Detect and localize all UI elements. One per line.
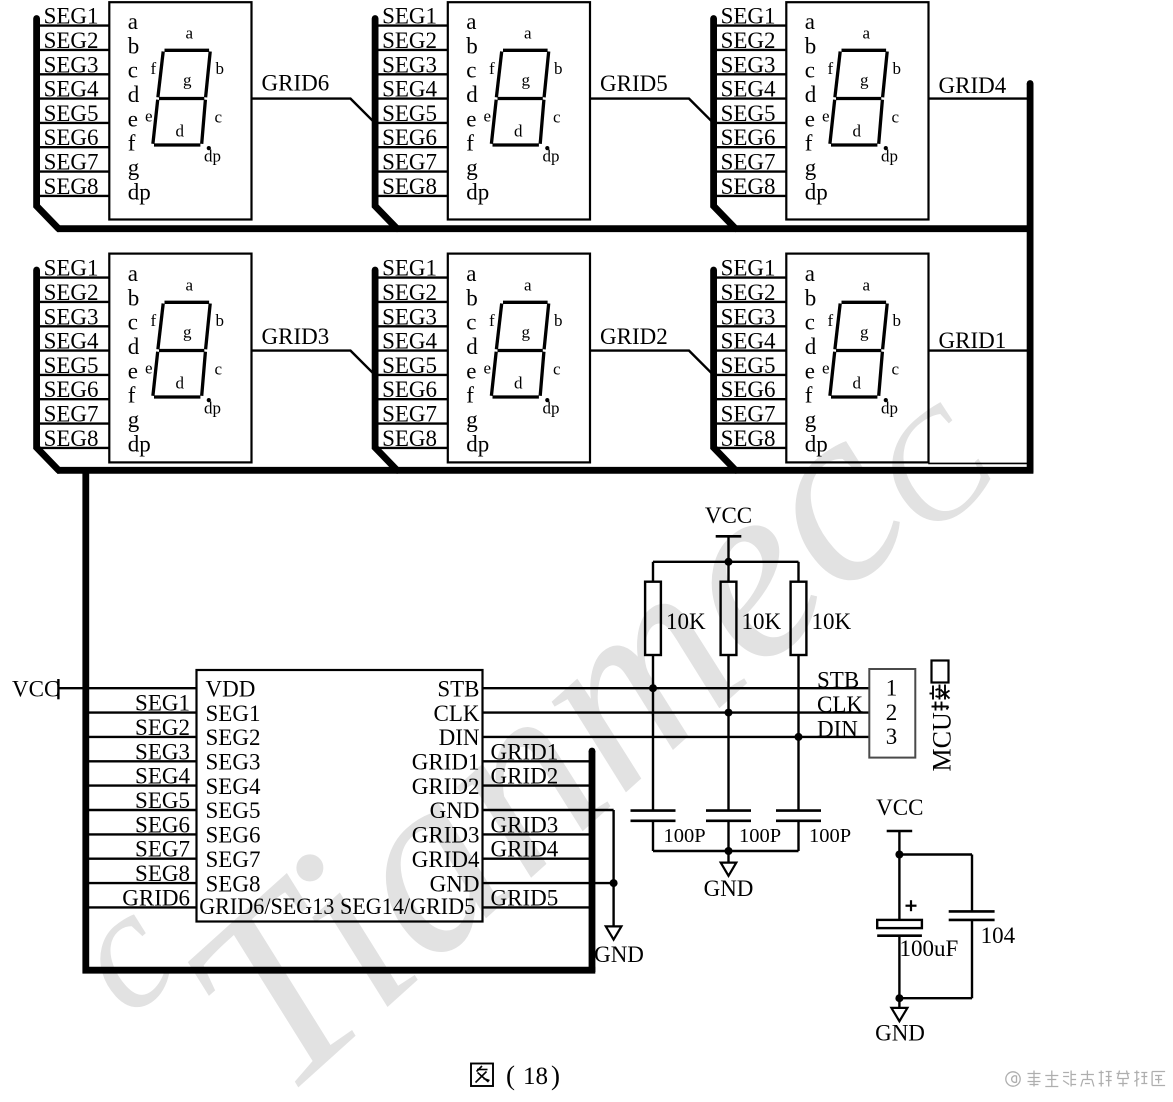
- svg-text:d: d: [853, 374, 862, 393]
- svg-text:f: f: [489, 59, 495, 78]
- svg-text:c: c: [805, 58, 815, 83]
- svg-text:SEG4: SEG4: [44, 329, 99, 354]
- svg-text:dp: dp: [466, 431, 489, 456]
- svg-text:c: c: [553, 360, 561, 379]
- svg-text:SEG5: SEG5: [44, 101, 99, 126]
- svg-text:dp: dp: [204, 399, 221, 418]
- svg-text:f: f: [828, 59, 834, 78]
- svg-text:SEG4: SEG4: [135, 764, 190, 789]
- svg-text:GRID5: GRID5: [600, 71, 668, 96]
- svg-text:b: b: [554, 59, 563, 78]
- svg-text:b: b: [805, 285, 817, 310]
- svg-text:SEG2: SEG2: [382, 280, 437, 305]
- svg-text:a: a: [863, 24, 871, 43]
- svg-text:GRID4: GRID4: [939, 73, 1007, 98]
- svg-text:SEG6: SEG6: [382, 125, 437, 150]
- svg-text:g: g: [128, 155, 140, 180]
- svg-text:g: g: [183, 323, 192, 342]
- svg-text:GRID1: GRID1: [939, 328, 1007, 353]
- svg-text:SEG7: SEG7: [382, 150, 437, 175]
- svg-text:SEG3: SEG3: [382, 52, 437, 77]
- svg-text:b: b: [893, 59, 902, 78]
- svg-text:b: b: [466, 285, 478, 310]
- svg-text:g: g: [466, 155, 478, 180]
- svg-text:g: g: [805, 155, 817, 180]
- svg-text:MCU: MCU: [928, 712, 957, 771]
- svg-text:f: f: [828, 311, 834, 330]
- svg-text:SEG2: SEG2: [44, 280, 99, 305]
- svg-text:g: g: [522, 323, 531, 342]
- svg-text:d: d: [466, 334, 478, 359]
- svg-text:b: b: [554, 311, 563, 330]
- svg-text:dp: dp: [466, 179, 489, 204]
- svg-text:GRID3: GRID3: [262, 324, 330, 349]
- svg-text:e: e: [466, 106, 476, 131]
- svg-text:dp: dp: [805, 179, 828, 204]
- svg-text:3: 3: [886, 724, 898, 749]
- svg-text:1: 1: [886, 676, 898, 701]
- svg-text:SEG3: SEG3: [44, 52, 99, 77]
- svg-text:f: f: [466, 383, 474, 408]
- svg-text:g: g: [860, 71, 869, 90]
- svg-text:SEG2: SEG2: [44, 28, 99, 53]
- svg-text:c: c: [128, 310, 138, 335]
- svg-text:SEG7: SEG7: [44, 150, 99, 175]
- svg-text:e: e: [822, 359, 830, 378]
- svg-text:f: f: [151, 311, 157, 330]
- svg-text:100P: 100P: [739, 825, 781, 847]
- svg-text:d: d: [805, 82, 817, 107]
- svg-text:b: b: [216, 59, 225, 78]
- svg-text:b: b: [128, 33, 140, 58]
- svg-text:SEG3: SEG3: [382, 304, 437, 329]
- svg-text:a: a: [805, 9, 815, 34]
- svg-text:g: g: [522, 71, 531, 90]
- svg-text:SEG4: SEG4: [721, 77, 776, 102]
- svg-text:d: d: [514, 122, 523, 141]
- svg-text:SEG7: SEG7: [135, 837, 190, 862]
- svg-text:DIN: DIN: [817, 716, 858, 741]
- svg-text:SEG4: SEG4: [721, 329, 776, 354]
- svg-text:SEG1: SEG1: [135, 691, 190, 716]
- svg-text:SEG4: SEG4: [382, 77, 437, 102]
- svg-text:SEG6: SEG6: [721, 125, 776, 150]
- svg-text:SEG3: SEG3: [721, 304, 776, 329]
- svg-text:100uF: 100uF: [900, 936, 959, 961]
- svg-text:SEG1: SEG1: [721, 4, 776, 29]
- svg-text:dp: dp: [543, 147, 560, 166]
- svg-text:c: c: [892, 360, 900, 379]
- svg-text:SEG8: SEG8: [382, 174, 437, 199]
- svg-text:dp: dp: [128, 179, 151, 204]
- svg-text:f: f: [489, 311, 495, 330]
- svg-text:a: a: [805, 261, 815, 286]
- svg-text:c: c: [215, 360, 223, 379]
- svg-text:SEG2: SEG2: [721, 280, 776, 305]
- svg-text:SEG5: SEG5: [721, 101, 776, 126]
- svg-text:SEG5: SEG5: [44, 353, 99, 378]
- svg-text:SEG7: SEG7: [721, 150, 776, 175]
- svg-text:f: f: [151, 59, 157, 78]
- svg-text:2: 2: [886, 700, 898, 725]
- svg-text:c: c: [128, 58, 138, 83]
- svg-text:a: a: [524, 276, 532, 295]
- svg-text:SEG7: SEG7: [44, 402, 99, 427]
- svg-text:SEG6: SEG6: [44, 377, 99, 402]
- svg-text:e: e: [805, 358, 815, 383]
- svg-text:b: b: [805, 33, 817, 58]
- svg-text:a: a: [466, 9, 476, 34]
- svg-text:d: d: [853, 122, 862, 141]
- svg-text:f: f: [805, 131, 813, 156]
- svg-text:f: f: [128, 383, 136, 408]
- svg-text:GRID6: GRID6: [262, 71, 330, 96]
- svg-text:e: e: [145, 359, 153, 378]
- svg-text:dp: dp: [204, 147, 221, 166]
- svg-text:e: e: [128, 358, 138, 383]
- svg-text:SEG4: SEG4: [382, 329, 437, 354]
- svg-text:SEG5: SEG5: [382, 353, 437, 378]
- svg-text:d: d: [128, 334, 140, 359]
- svg-text:g: g: [128, 407, 140, 432]
- svg-text:SEG1: SEG1: [44, 256, 99, 281]
- svg-text:SEG6: SEG6: [135, 812, 190, 837]
- svg-text:104: 104: [981, 923, 1016, 948]
- svg-text:e: e: [466, 358, 476, 383]
- svg-text:SEG3: SEG3: [44, 304, 99, 329]
- svg-text:SEG5: SEG5: [135, 788, 190, 813]
- svg-text:SEG1: SEG1: [721, 256, 776, 281]
- svg-text:GND: GND: [594, 942, 644, 967]
- svg-text:SEG8: SEG8: [44, 426, 99, 451]
- svg-text:g: g: [860, 323, 869, 342]
- svg-text:SEG2: SEG2: [135, 715, 190, 740]
- svg-text:100P: 100P: [809, 825, 851, 847]
- svg-text:e: e: [484, 107, 492, 126]
- svg-text:SEG8: SEG8: [721, 174, 776, 199]
- svg-text:SEG1: SEG1: [206, 701, 261, 726]
- svg-text:SEG6: SEG6: [44, 125, 99, 150]
- svg-text:SEG2: SEG2: [206, 725, 261, 750]
- svg-text:e: e: [805, 106, 815, 131]
- svg-text:SEG8: SEG8: [382, 426, 437, 451]
- svg-text:SEG3: SEG3: [135, 739, 190, 764]
- svg-text:SEG2: SEG2: [721, 28, 776, 53]
- svg-text:a: a: [128, 261, 138, 286]
- svg-text:SEG5: SEG5: [206, 798, 261, 823]
- svg-text:d: d: [805, 334, 817, 359]
- svg-text:dp: dp: [881, 147, 898, 166]
- svg-text:a: a: [863, 276, 871, 295]
- svg-text:c: c: [466, 58, 476, 83]
- svg-text:VCC: VCC: [876, 795, 923, 820]
- svg-text:SEG1: SEG1: [44, 4, 99, 29]
- svg-text:(: (: [506, 1061, 515, 1091]
- svg-text:d: d: [176, 122, 185, 141]
- svg-text:SEG4: SEG4: [206, 774, 261, 799]
- svg-text:GRID2: GRID2: [600, 324, 668, 349]
- svg-text:SEG3: SEG3: [206, 750, 261, 775]
- svg-text:a: a: [466, 261, 476, 286]
- svg-text:c: c: [466, 310, 476, 335]
- svg-text:SEG4: SEG4: [44, 77, 99, 102]
- svg-text:SEG1: SEG1: [382, 4, 437, 29]
- svg-text:e: e: [145, 107, 153, 126]
- svg-text:a: a: [186, 24, 194, 43]
- svg-text:c: c: [215, 108, 223, 127]
- svg-text:SEG3: SEG3: [721, 52, 776, 77]
- svg-text:SEG7: SEG7: [382, 402, 437, 427]
- svg-text:a: a: [524, 24, 532, 43]
- svg-text:SEG2: SEG2: [382, 28, 437, 53]
- svg-text:SEG5: SEG5: [382, 101, 437, 126]
- svg-text:b: b: [893, 311, 902, 330]
- svg-text:d: d: [128, 82, 140, 107]
- svg-text:dp: dp: [543, 399, 560, 418]
- svg-text:SEG1: SEG1: [382, 256, 437, 281]
- svg-text:GND: GND: [704, 876, 754, 901]
- svg-text:VCC: VCC: [12, 677, 59, 702]
- svg-text:a: a: [186, 276, 194, 295]
- svg-text:b: b: [128, 285, 140, 310]
- svg-text:a: a: [128, 9, 138, 34]
- svg-text:SEG8: SEG8: [135, 861, 190, 886]
- svg-text:GND: GND: [875, 1020, 925, 1045]
- svg-text:18: 18: [523, 1063, 548, 1090]
- svg-text:b: b: [466, 33, 478, 58]
- svg-text:CLK: CLK: [817, 692, 863, 717]
- svg-text:c: c: [892, 108, 900, 127]
- svg-text:b: b: [216, 311, 225, 330]
- svg-text:SEG8: SEG8: [44, 174, 99, 199]
- svg-text:f: f: [128, 131, 136, 156]
- svg-text:SEG6: SEG6: [382, 377, 437, 402]
- svg-text:VDD: VDD: [206, 676, 256, 701]
- svg-text:100P: 100P: [664, 825, 706, 847]
- svg-text:c: c: [553, 108, 561, 127]
- svg-text:f: f: [466, 131, 474, 156]
- svg-text:c: c: [805, 310, 815, 335]
- svg-text:e: e: [822, 107, 830, 126]
- svg-text:e: e: [128, 106, 138, 131]
- svg-text:): ): [551, 1061, 560, 1091]
- svg-text:d: d: [514, 374, 523, 393]
- svg-text:d: d: [176, 374, 185, 393]
- svg-text:dp: dp: [128, 431, 151, 456]
- svg-text:g: g: [183, 71, 192, 90]
- svg-text:g: g: [466, 407, 478, 432]
- svg-text:d: d: [466, 82, 478, 107]
- svg-text:e: e: [484, 359, 492, 378]
